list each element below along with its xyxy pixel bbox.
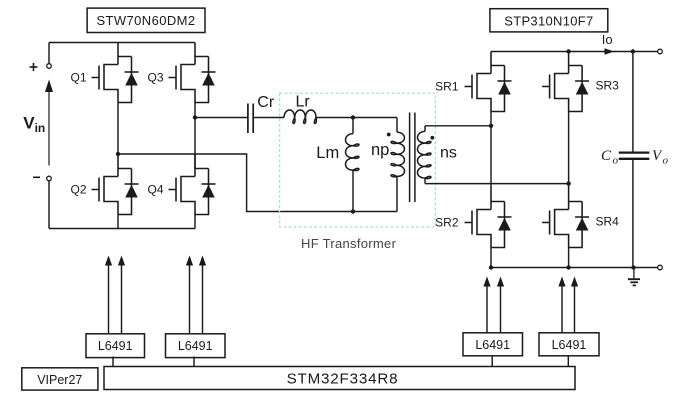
transistor SR4 — [542, 188, 589, 248]
svg-text:Q2: Q2 — [70, 182, 86, 196]
wire ns top to SR leg — [425, 125, 491, 127]
wire U5 to MCU — [567, 356, 569, 367]
label Lm — [316, 144, 339, 162]
svg-text:np: np — [371, 141, 389, 159]
wire Co bottom branch — [632, 160, 634, 268]
svg-text:L6491: L6491 — [475, 338, 510, 352]
transformer core — [410, 113, 415, 203]
svg-text:C: C — [601, 148, 612, 164]
label Co — [601, 148, 619, 167]
svg-text:L6491: L6491 — [552, 338, 587, 352]
phase dot np — [387, 133, 391, 137]
transistor SR1 — [465, 52, 512, 112]
wire SR3 source to node D — [568, 112, 570, 189]
node D junction — [566, 181, 570, 185]
label Io — [602, 32, 613, 47]
label Vo — [652, 148, 669, 167]
transistor SR3 — [542, 52, 589, 112]
arrow Vin direction — [45, 80, 53, 166]
wire U4 to MCU — [491, 356, 493, 367]
wire ns bottom to SR3 SR4 leg — [425, 183, 569, 185]
transistor Q4 — [169, 155, 216, 215]
svg-text:SR4: SR4 — [596, 214, 620, 228]
wire Q2 source to bottom rail — [117, 215, 119, 229]
wire U2 to MCU — [112, 357, 114, 367]
node Lm top junction — [351, 115, 355, 119]
wire node C to SR2 drain — [490, 126, 492, 188]
node B junction — [193, 115, 197, 119]
gate drive arrows Q3 Q4 — [186, 256, 206, 334]
label Lr — [296, 93, 311, 110]
MCU U6 STM32F334R8 — [104, 367, 575, 390]
wire U3 to MCU — [193, 357, 195, 367]
label SR2 — [435, 215, 459, 229]
svg-text:o: o — [613, 155, 619, 167]
svg-text:L6491: L6491 — [98, 339, 133, 353]
terminal Vin minus — [47, 176, 52, 181]
wire Q3 source to node B — [194, 103, 196, 169]
label SR4 — [596, 214, 620, 228]
transistor Q3 — [169, 43, 216, 103]
gate drive arrows Q1 Q2 — [105, 256, 125, 334]
wire SR4 source to bottom rail — [568, 248, 570, 268]
label np — [371, 141, 389, 159]
svg-text:o: o — [663, 155, 669, 167]
svg-text:Q4: Q4 — [147, 182, 163, 196]
label SR1 — [435, 79, 459, 93]
svg-text:Lm: Lm — [316, 144, 339, 162]
label plus sign — [30, 63, 38, 71]
wire Cr to Lr — [253, 117, 284, 119]
label Q4 — [147, 182, 163, 196]
label Q2 — [70, 182, 86, 196]
gate drive arrows SR3 SR4 — [558, 277, 578, 334]
label Cr — [257, 94, 275, 111]
driver U3 L6491 — [166, 334, 226, 358]
capacitor Co — [619, 153, 650, 159]
wire SR1 source to node C — [490, 112, 492, 126]
wire top rail primary — [49, 42, 195, 44]
node SR4 source junction — [566, 265, 570, 269]
node A junction — [116, 152, 120, 156]
svg-text:SR2: SR2 — [435, 215, 459, 229]
transistor Q2 — [92, 155, 139, 215]
label SR3 — [596, 78, 620, 92]
svg-text:Q1: Q1 — [70, 70, 86, 84]
part-number box STW70N60DM2 — [87, 8, 205, 32]
wire Lr to Lm node — [316, 117, 397, 119]
node output positive junction — [631, 49, 635, 53]
svg-text:in: in — [35, 121, 46, 135]
arrow Io — [605, 48, 615, 55]
svg-text:HF Transformer: HF Transformer — [301, 236, 397, 251]
svg-text:Cr: Cr — [257, 94, 275, 111]
wire Co top branch — [632, 52, 634, 152]
node Lm bottom junction — [351, 209, 355, 213]
driver U4 L6491 — [463, 333, 523, 356]
wire Q1 source to node A — [117, 103, 119, 155]
dashed boundary HF transformer — [280, 93, 436, 227]
terminal output negative — [658, 265, 663, 270]
ground — [628, 268, 640, 286]
gate drive arrows SR1 SR2 — [483, 277, 504, 334]
part-number box STP310N10F7 — [490, 9, 608, 32]
svg-text:Q3: Q3 — [147, 70, 163, 84]
transformer primary winding np — [391, 118, 404, 212]
wire top rail secondary — [491, 51, 660, 53]
svg-text:ns: ns — [440, 145, 457, 162]
wire bottom rail primary — [49, 228, 195, 230]
svg-text:V: V — [23, 114, 35, 133]
wire SR2 source to bottom rail — [490, 248, 492, 268]
capacitor Cr — [248, 104, 253, 134]
svg-text:Lr: Lr — [296, 93, 311, 110]
svg-text:Io: Io — [602, 32, 613, 47]
label ns — [440, 145, 457, 162]
svg-text:VIPer27: VIPer27 — [37, 373, 82, 387]
driver U5 L6491 — [539, 333, 599, 356]
node SR3 drain junction — [566, 49, 570, 53]
svg-text:STW70N60DM2: STW70N60DM2 — [96, 13, 195, 28]
wire node A to transformer return — [118, 154, 397, 212]
transformer secondary winding ns — [418, 126, 431, 184]
wire Vin plus lead — [48, 43, 50, 64]
terminal Vin plus — [47, 64, 52, 69]
terminal output positive — [658, 49, 663, 54]
driver U2 L6491 — [86, 334, 145, 358]
node ground junction — [631, 265, 635, 269]
svg-text:SR3: SR3 — [596, 78, 620, 92]
supply U1 VIPer27 — [22, 368, 98, 390]
inductor Lm — [346, 118, 359, 212]
label minus sign — [33, 176, 40, 178]
node C junction — [489, 124, 493, 128]
wire bottom rail secondary — [491, 267, 660, 269]
label Q3 — [147, 70, 163, 84]
transistor Q1 — [92, 43, 139, 103]
label HF Transformer — [301, 236, 397, 251]
phase dot ns — [430, 136, 434, 140]
wire Q4 source to bottom rail — [194, 215, 196, 229]
transistor SR2 — [465, 188, 512, 248]
svg-text:SR1: SR1 — [435, 79, 459, 93]
svg-text:STP310N10F7: STP310N10F7 — [504, 13, 593, 28]
svg-text:L6491: L6491 — [178, 339, 213, 353]
wire Vin minus lead — [48, 181, 50, 229]
node SR2 source junction — [489, 265, 493, 269]
wire node B to Cr — [195, 117, 247, 119]
inductor Lr — [284, 110, 316, 123]
svg-text:STM32F334R8: STM32F334R8 — [287, 371, 399, 388]
label Q1 — [70, 70, 86, 84]
label Vin — [23, 114, 45, 135]
